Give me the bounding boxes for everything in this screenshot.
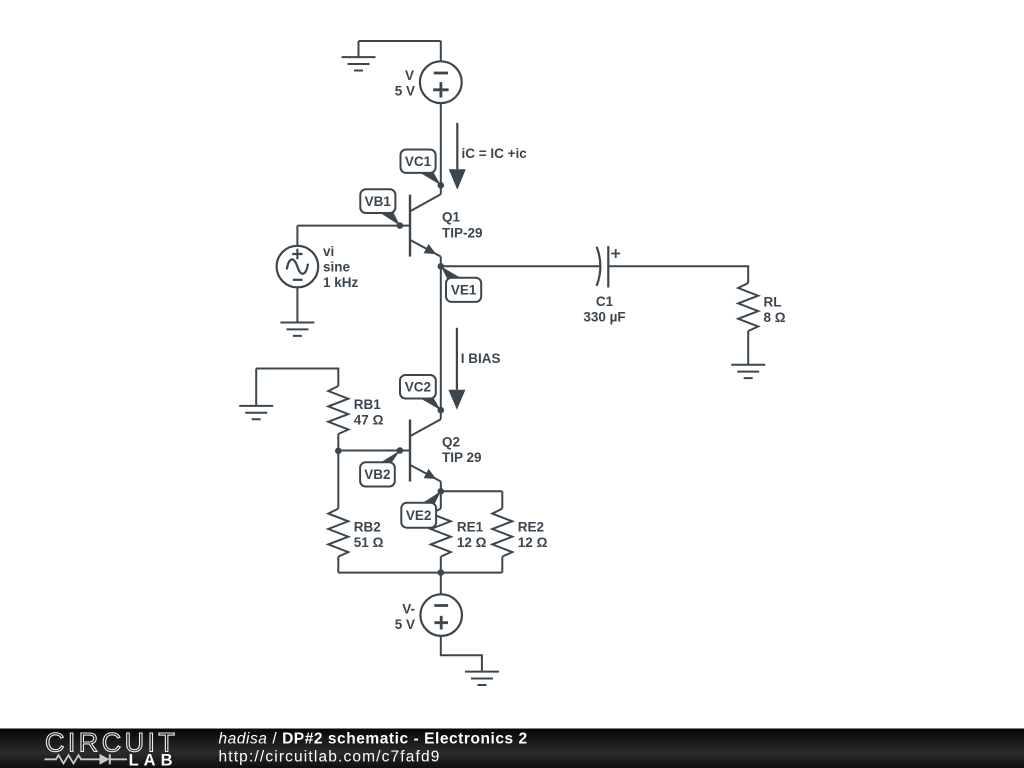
svg-text:VB2: VB2: [364, 467, 390, 482]
svg-text:8 Ω: 8 Ω: [764, 310, 786, 325]
svg-text:V: V: [405, 68, 414, 83]
svg-text:5 V: 5 V: [395, 83, 415, 98]
svg-text:V-: V-: [402, 602, 415, 617]
svg-text:http://circuitlab.com/c7fafd9: http://circuitlab.com/c7fafd9: [219, 749, 441, 766]
svg-text:sine: sine: [323, 259, 351, 274]
svg-text:5 V: 5 V: [395, 617, 415, 632]
svg-text:1 kHz: 1 kHz: [323, 275, 359, 290]
svg-text:vi: vi: [323, 244, 334, 259]
svg-text:I BIAS: I BIAS: [461, 351, 501, 366]
svg-text:RB2: RB2: [354, 520, 381, 535]
svg-text:VE2: VE2: [406, 508, 432, 523]
svg-text:RE1: RE1: [457, 520, 484, 535]
svg-text:VB1: VB1: [365, 194, 392, 209]
svg-text:Q1: Q1: [442, 210, 461, 225]
svg-text:TIP-29: TIP-29: [442, 225, 483, 240]
svg-text:RL: RL: [764, 294, 782, 309]
svg-text:47 Ω: 47 Ω: [354, 412, 384, 427]
svg-text:RB1: RB1: [354, 397, 381, 412]
svg-text:hadisa / DP#2 schematic - Elec: hadisa / DP#2 schematic - Electronics 2: [219, 730, 528, 747]
svg-text:51 Ω: 51 Ω: [354, 535, 384, 550]
svg-text:12 Ω: 12 Ω: [518, 535, 548, 550]
svg-text:RE2: RE2: [518, 520, 544, 535]
svg-text:Q2: Q2: [442, 434, 460, 449]
svg-text:VE1: VE1: [451, 283, 477, 298]
svg-text:C1: C1: [596, 294, 614, 309]
svg-text:VC1: VC1: [405, 154, 432, 169]
svg-text:LAB: LAB: [129, 751, 178, 768]
svg-text:12 Ω: 12 Ω: [457, 535, 487, 550]
svg-text:VC2: VC2: [405, 380, 431, 395]
svg-text:TIP 29: TIP 29: [442, 450, 482, 465]
svg-text:330 µF: 330 µF: [583, 310, 625, 325]
svg-text:iC = IC +ic: iC = IC +ic: [462, 146, 528, 161]
